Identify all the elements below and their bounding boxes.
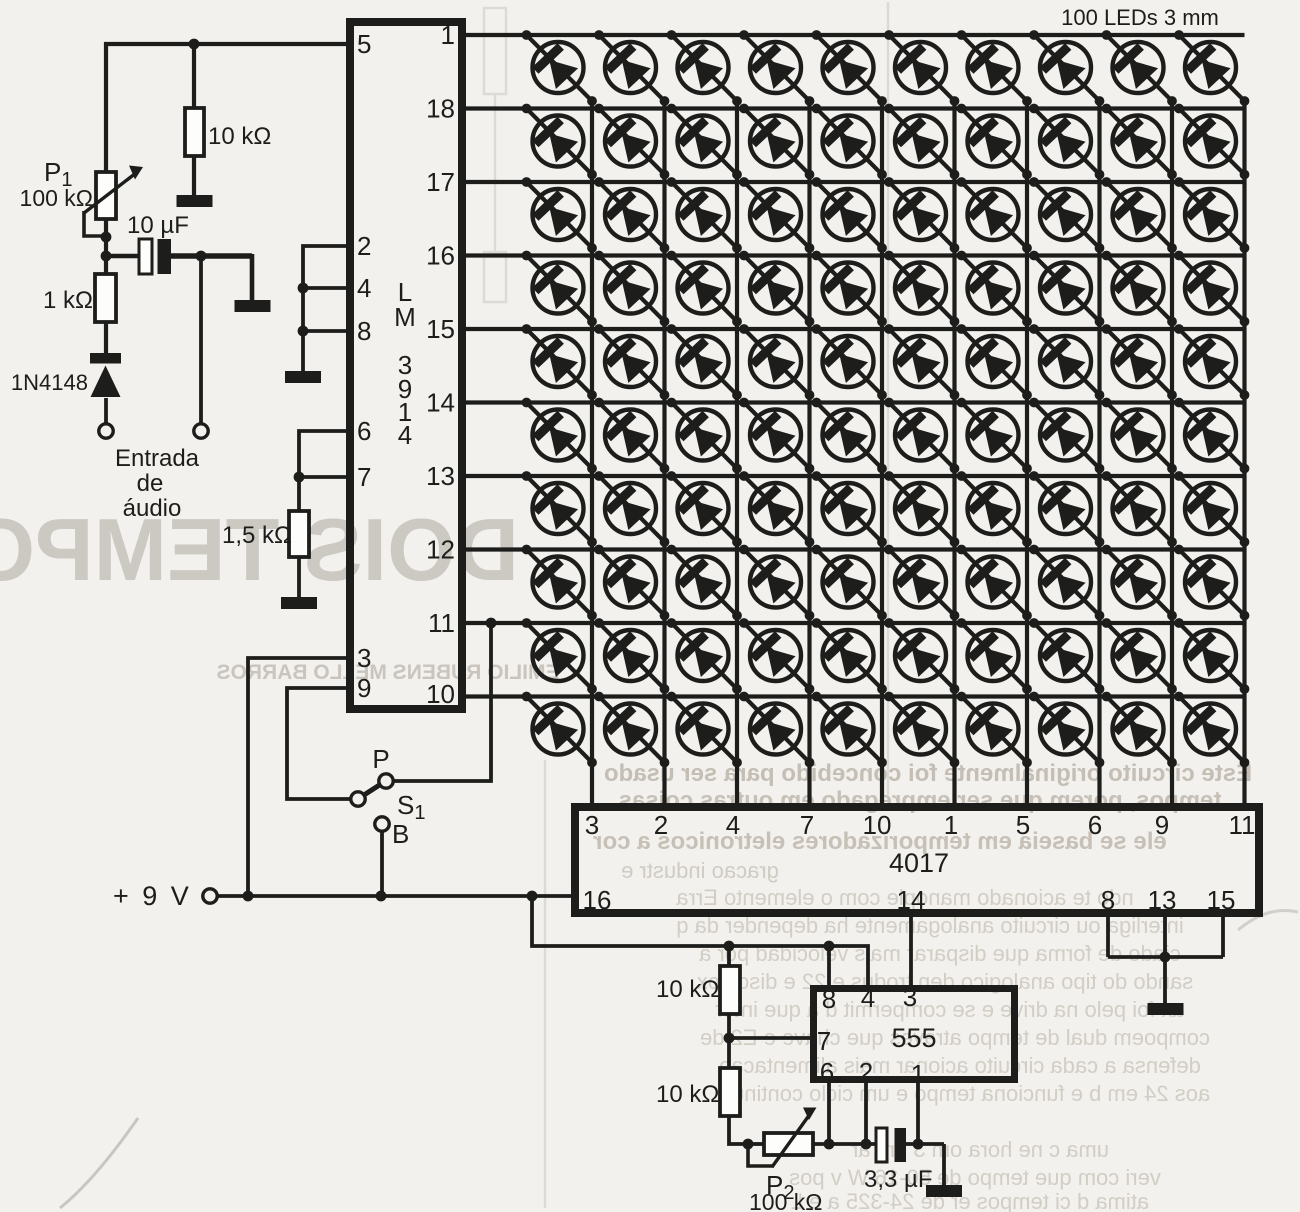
svg-text:1N4148: 1N4148 [11, 370, 88, 395]
LED D98 (row pin 10, column pin 6) [1029, 692, 1104, 768]
LED D74 (row pin 12, column pin 7) [739, 545, 814, 621]
wire: P1 bottom to 1k resistor [104, 219, 108, 274]
LED D88 (row pin 11, column pin 6) [1029, 618, 1104, 694]
svg-text:14: 14 [897, 885, 926, 915]
wire: row line LM3914 pin 18 [462, 106, 1245, 110]
svg-text:8: 8 [357, 316, 371, 346]
svg-text:aos 24 em b e funciona temp: aos 24 em b e funciona tempo e um ciclo … [719, 1081, 1210, 1106]
svg-text:555: 555 [891, 1023, 936, 1053]
LED D38 (row pin 16, column pin 6) [1029, 251, 1104, 327]
svg-text:4: 4 [357, 273, 371, 303]
LED D54 (row pin 14, column pin 7) [739, 398, 814, 474]
LED D55 (row pin 14, column pin 10) [812, 398, 887, 474]
LED D29 (row pin 17, column pin 9) [1102, 177, 1177, 253]
resistor 10 kOhm (R5 timing) [720, 1068, 740, 1116]
potentiometer P1 body [96, 172, 116, 219]
ground below 10k [177, 195, 213, 207]
wire: row line LM3914 pin 17 [462, 180, 1245, 184]
wire: 555 pin 8 riser [827, 946, 831, 985]
LED D26 (row pin 17, column pin 1) [884, 177, 959, 253]
LED D35 (row pin 16, column pin 10) [812, 251, 887, 327]
ground for 555 timing network [926, 1185, 962, 1197]
LED D70 (row pin 13, column pin 11) [1174, 471, 1249, 547]
svg-text:7: 7 [817, 1026, 831, 1056]
LED D92 (row pin 10, column pin 2) [594, 692, 669, 768]
LED D3 (row pin 1, column pin 4) [667, 30, 742, 106]
LED D37 (row pin 16, column pin 5) [957, 251, 1032, 327]
svg-text:2: 2 [654, 810, 668, 840]
LED D91 (row pin 10, column pin 3) [522, 692, 597, 768]
LED D28 (row pin 17, column pin 6) [1029, 177, 1104, 253]
wire: row line LM3914 pin 11 [462, 621, 1245, 625]
LED D12 (row pin 18, column pin 2) [594, 104, 669, 180]
svg-text:100 kΩ: 100 kΩ [20, 185, 93, 211]
op-amp/driver IC U1 LM3914 body [350, 22, 462, 709]
junction: +9V / LM pin 3 branch [243, 891, 254, 902]
LED D97 (row pin 10, column pin 5) [957, 692, 1032, 768]
wire: pin 8 to ground bus [303, 329, 346, 333]
svg-text:7: 7 [800, 810, 814, 840]
svg-text:1 kΩ: 1 kΩ [43, 287, 93, 314]
LED D20 (row pin 18, column pin 11) [1174, 104, 1249, 180]
LED D93 (row pin 10, column pin 4) [667, 692, 742, 768]
LED D57 (row pin 14, column pin 5) [957, 398, 1032, 474]
junction: +9V / switch B branch [376, 891, 387, 902]
LED D33 (row pin 16, column pin 4) [667, 251, 742, 327]
wire: 555 pin 1 riser [916, 1083, 920, 1144]
wire: 555 pin 6 riser [827, 1083, 831, 1144]
LED D71 (row pin 12, column pin 3) [522, 545, 597, 621]
wire: 10k resistor top lead [192, 44, 196, 108]
LED D65 (row pin 13, column pin 10) [812, 471, 887, 547]
svg-text:uma c ne hora om 3 um ar: uma c ne hora om 3 um ar [851, 1137, 1109, 1162]
svg-text:10 kΩ: 10 kΩ [656, 976, 719, 1003]
junction: supply line / 10k timing chain [724, 941, 735, 952]
LED D73 (row pin 12, column pin 4) [667, 545, 742, 621]
LED D15 (row pin 18, column pin 10) [812, 104, 887, 180]
LED D56 (row pin 14, column pin 1) [884, 398, 959, 474]
LED D96 (row pin 10, column pin 1) [884, 692, 959, 768]
LED D99 (row pin 10, column pin 9) [1102, 692, 1177, 768]
capacitor C2 3,3uF positive plate [876, 1128, 887, 1162]
wire: row line LM3914 pin 15 [462, 327, 1245, 331]
wire: column line to 4017 pin 4 [735, 100, 739, 807]
diode 1N4148 anode triangle [91, 366, 121, 398]
LED D81 (row pin 11, column pin 3) [522, 618, 597, 694]
wire: row line LM3914 pin 1 [462, 33, 1245, 37]
counter IC U2 4017 body [575, 807, 1259, 913]
svg-text:4: 4 [398, 420, 412, 450]
capacitor C2 3,3uF negative plate [895, 1128, 907, 1162]
wire: pin 9 to switch S1 common [287, 688, 351, 799]
LED D61 (row pin 13, column pin 3) [522, 471, 597, 547]
LED D23 (row pin 17, column pin 4) [667, 177, 742, 253]
junction: pin8/bus [298, 326, 309, 337]
LED D64 (row pin 13, column pin 7) [739, 471, 814, 547]
junction: coupling cap node [101, 251, 112, 262]
svg-text:áudio: áudio [123, 495, 182, 522]
svg-text:4017: 4017 [889, 848, 949, 878]
LED D22 (row pin 17, column pin 2) [594, 177, 669, 253]
svg-text:defensa a cada circuito aciona: defensa a cada circuito acionar mais ali… [719, 1053, 1201, 1078]
ground below 1.5k [281, 597, 317, 609]
svg-text:Entrada: Entrada [115, 445, 200, 472]
wire: diode to input terminal [104, 398, 108, 424]
LED D40 (row pin 16, column pin 11) [1174, 251, 1249, 327]
terminal: audio input (right) [194, 424, 208, 438]
wire: column line to 4017 pin 7 [807, 100, 811, 807]
svg-text:12: 12 [426, 535, 455, 565]
svg-text:15: 15 [1207, 885, 1236, 915]
LED D76 (row pin 12, column pin 1) [884, 545, 959, 621]
wire: to 10uF capacitor [106, 254, 139, 259]
wire: pins 8-13-15 tie line [1108, 955, 1223, 959]
LED D87 (row pin 11, column pin 5) [957, 618, 1032, 694]
svg-text:3: 3 [357, 643, 371, 673]
svg-text:atima d ci tempos er de 24-3: atima d ci tempos er de 24-325 a e L [791, 1189, 1149, 1212]
wire: down to ground stub [250, 254, 255, 301]
svg-text:16: 16 [583, 885, 612, 915]
wire: C2 to ground branch [906, 1142, 944, 1146]
LED D84 (row pin 11, column pin 7) [739, 618, 814, 694]
LED D9 (row pin 1, column pin 9) [1102, 30, 1177, 106]
wire: 1.5k to ground [297, 557, 301, 598]
junction: pin6/pin7 node [294, 472, 305, 483]
LED D47 (row pin 15, column pin 5) [957, 324, 1032, 400]
svg-text:16: 16 [426, 241, 455, 271]
svg-text:3,3 µF: 3,3 µF [864, 1166, 933, 1193]
LED D16 (row pin 18, column pin 1) [884, 104, 959, 180]
LED D69 (row pin 13, column pin 9) [1102, 471, 1177, 547]
LED D59 (row pin 14, column pin 9) [1102, 398, 1177, 474]
svg-text:5: 5 [357, 29, 371, 59]
wire: node to 1.5k [297, 477, 301, 511]
svg-text:10 kΩ: 10 kΩ [656, 1081, 719, 1108]
LED D50 (row pin 15, column pin 11) [1174, 324, 1249, 400]
svg-text:P: P [372, 744, 389, 774]
svg-text:10 µF: 10 µF [127, 212, 189, 239]
LED D72 (row pin 12, column pin 2) [594, 545, 669, 621]
LED D80 (row pin 12, column pin 11) [1174, 545, 1249, 621]
LED D58 (row pin 14, column pin 6) [1029, 398, 1104, 474]
wire: pin 2 to ground bus [303, 246, 346, 372]
junction: 555 pin 6 [824, 1139, 835, 1150]
svg-text:10: 10 [426, 679, 455, 709]
svg-text:1: 1 [944, 810, 958, 840]
wire: node A top rail from P1 top down to P1 and to LM3914 pin 5 [106, 44, 346, 173]
LED D10 (row pin 1, column pin 11) [1174, 30, 1249, 106]
LED D48 (row pin 15, column pin 6) [1029, 324, 1104, 400]
terminal: +9V supply [203, 889, 217, 903]
wire: row line LM3914 pin 12 [462, 547, 1245, 551]
svg-text:veri com que tempo de 50-16: veri com que tempo de 50-16 W v pos [789, 1165, 1161, 1190]
junction: P1 wiper node [101, 232, 112, 243]
LED D52 (row pin 14, column pin 2) [594, 398, 669, 474]
wire: pin 7 to divider node [299, 475, 346, 479]
junction: signal input node [196, 251, 207, 262]
wire: column line to 4017 pin 6 [1097, 100, 1101, 807]
svg-text:EMILIO RUBENS MELLO BARROS: EMILIO RUBENS MELLO BARROS [216, 661, 559, 684]
wire: contact B down to +9V rail [380, 831, 384, 896]
junction: +9V / 555 supply branch [527, 891, 538, 902]
wire: signal node down to input terminal [199, 256, 203, 424]
LED D82 (row pin 11, column pin 2) [594, 618, 669, 694]
potentiometer P2 wiper arrow [772, 1114, 810, 1167]
junction: pin 11 line / switch P [486, 618, 497, 629]
LED D5 (row pin 1, column pin 10) [812, 30, 887, 106]
svg-text:M: M [394, 302, 416, 332]
junction: supply line / 555 pin 8 [824, 941, 835, 952]
LED D86 (row pin 11, column pin 1) [884, 618, 959, 694]
wire: 1k to diode [104, 322, 108, 355]
svg-text:4: 4 [726, 810, 740, 840]
svg-text:13: 13 [1148, 885, 1177, 915]
svg-text:gracao industr e: gracao industr e [621, 858, 779, 883]
svg-text:4: 4 [861, 983, 875, 1013]
potentiometer P2 body [764, 1133, 813, 1155]
LED D21 (row pin 17, column pin 3) [522, 177, 597, 253]
svg-text:ax foi pelo na drive e se co: ax foi pelo na drive e se compermit d a … [715, 997, 1185, 1022]
wire: +9V rail to 4017 pin 16 [217, 894, 575, 898]
wire: node to 555 pin 7 [729, 1036, 813, 1040]
wire: 4017 pin 14 to 555 pin 3 [909, 917, 913, 989]
wire: R5 down to P2 node [729, 1116, 748, 1144]
LED D2 (row pin 1, column pin 2) [594, 30, 669, 106]
LED D66 (row pin 13, column pin 1) [884, 471, 959, 547]
LED D4 (row pin 1, column pin 7) [739, 30, 814, 106]
junction: pin13 / tie line [1160, 952, 1171, 963]
svg-text:100 LEDs 3 mm: 100 LEDs 3 mm [1061, 5, 1219, 30]
LED D67 (row pin 13, column pin 5) [957, 471, 1032, 547]
LED D24 (row pin 17, column pin 7) [739, 177, 814, 253]
svg-text:17: 17 [426, 167, 455, 197]
wire: row line LM3914 pin 10 [462, 694, 1245, 698]
ground for pins 2,4,8 [285, 371, 321, 383]
capacitor C1 10uF positive plate [139, 239, 152, 274]
LED D49 (row pin 15, column pin 9) [1102, 324, 1177, 400]
svg-text:5: 5 [1016, 810, 1030, 840]
resistor 10 kOhm (R4 timing) [720, 966, 740, 1014]
svg-text:8: 8 [822, 984, 836, 1014]
wire: 4017 pin 13 to ground [1163, 917, 1167, 1004]
ground for signal return [235, 300, 271, 312]
wire: column line to 4017 pin 9 [1170, 100, 1174, 807]
svg-text:B: B [392, 819, 409, 849]
svg-text:2: 2 [859, 1057, 873, 1087]
svg-text:15: 15 [426, 314, 455, 344]
wire: pin 6 down to pin 7 node [299, 431, 346, 477]
svg-text:3: 3 [585, 810, 599, 840]
wire: 4017 pin 8 riser [1106, 917, 1110, 957]
LED D63 (row pin 13, column pin 4) [667, 471, 742, 547]
LED D83 (row pin 11, column pin 4) [667, 618, 742, 694]
wire: node to R5 [727, 1038, 731, 1068]
LED D14 (row pin 18, column pin 7) [739, 104, 814, 180]
LED D100 (row pin 10, column pin 11) [1174, 692, 1249, 768]
LED D8 (row pin 1, column pin 6) [1029, 30, 1104, 106]
wire: column line to 4017 pin 2 [662, 100, 666, 807]
LED D34 (row pin 16, column pin 7) [739, 251, 814, 327]
svg-text:6: 6 [820, 1057, 834, 1087]
LED D51 (row pin 14, column pin 3) [522, 398, 597, 474]
svg-text:1: 1 [441, 20, 455, 50]
LED D19 (row pin 18, column pin 9) [1102, 104, 1177, 180]
wire: P1 wiper hook to bottom terminal [84, 211, 104, 236]
LED D41 (row pin 15, column pin 3) [522, 324, 597, 400]
svg-text:9: 9 [357, 673, 371, 703]
LED D46 (row pin 15, column pin 1) [884, 324, 959, 400]
switch S1 contact B [375, 817, 389, 831]
LED D13 (row pin 18, column pin 4) [667, 104, 742, 180]
svg-text:+ 9 V: + 9 V [113, 881, 192, 911]
wire: node to P2 body [748, 1142, 764, 1146]
junction: pin 7 node [724, 1033, 735, 1044]
wire: column line to 4017 pin 11 [1242, 100, 1246, 807]
wire: 10uF to signal node [171, 253, 252, 259]
wire: row line LM3914 pin 16 [462, 253, 1245, 257]
LED D25 (row pin 17, column pin 10) [812, 177, 887, 253]
wire: +9V branch down to 555 supply line [532, 896, 868, 985]
wire: down to ground [942, 1144, 946, 1186]
svg-text:14: 14 [426, 388, 455, 418]
svg-text:11: 11 [1229, 810, 1256, 840]
LED D32 (row pin 16, column pin 2) [594, 251, 669, 327]
LED D18 (row pin 18, column pin 6) [1029, 104, 1104, 180]
svg-text:8: 8 [1101, 885, 1115, 915]
LED D36 (row pin 16, column pin 1) [884, 251, 959, 327]
LED D44 (row pin 15, column pin 7) [739, 324, 814, 400]
LED D7 (row pin 1, column pin 5) [957, 30, 1032, 106]
svg-text:de: de [137, 470, 164, 497]
wire: column line to 4017 pin 5 [1025, 100, 1029, 807]
switch S1 common contact [351, 792, 365, 806]
LED D95 (row pin 10, column pin 10) [812, 692, 887, 768]
resistor 10 kOhm (reference divider) [185, 108, 204, 156]
LED D42 (row pin 15, column pin 2) [594, 324, 669, 400]
LED D53 (row pin 14, column pin 4) [667, 398, 742, 474]
wire: 555 pin 2 riser [864, 1083, 868, 1144]
svg-text:6: 6 [357, 416, 371, 446]
LED D89 (row pin 11, column pin 9) [1102, 618, 1177, 694]
switch S1 contact P [379, 774, 393, 788]
LED D11 (row pin 18, column pin 3) [522, 104, 597, 180]
LED D79 (row pin 12, column pin 9) [1102, 545, 1177, 621]
LED D90 (row pin 11, column pin 11) [1174, 618, 1249, 694]
svg-text:6: 6 [1088, 810, 1102, 840]
junction: P2 left node [743, 1139, 754, 1150]
LED D1 (row pin 1, column pin 3) [522, 30, 597, 106]
svg-text:Este circuito originalmente fo: Este circuito originalmente foi concebid… [604, 760, 1252, 787]
LED D77 (row pin 12, column pin 5) [957, 545, 1032, 621]
LED D60 (row pin 14, column pin 11) [1174, 398, 1249, 474]
terminal: audio input (left) [99, 424, 113, 438]
wire: 10k resistor bottom lead [192, 156, 196, 196]
wire: pin 3 to +9V rail [248, 658, 346, 896]
svg-text:11: 11 [428, 608, 455, 638]
potentiometer P1 wiper arrow [84, 173, 136, 213]
svg-text:3: 3 [903, 982, 917, 1012]
svg-text:2: 2 [357, 231, 371, 261]
wire: row line LM3914 pin 13 [462, 474, 1245, 478]
wire: contact P up to LM3914 pin 11 line [393, 623, 491, 781]
wire: P2 wiper hook [748, 1144, 774, 1166]
wire: P2 to pins 6/2 [813, 1142, 876, 1146]
LED D75 (row pin 12, column pin 10) [812, 545, 887, 621]
LED D27 (row pin 17, column pin 5) [957, 177, 1032, 253]
LED D45 (row pin 15, column pin 10) [812, 324, 887, 400]
wire: column line to 4017 pin 3 [590, 100, 594, 807]
resistor 1 kOhm [95, 274, 116, 322]
wire: pin 4 to ground bus [303, 286, 346, 290]
wire: column line to 4017 pin 10 [880, 100, 884, 807]
resistor 1,5 kOhm [289, 511, 309, 557]
switch S1 lever [364, 784, 381, 795]
timer IC U3 555 body [814, 989, 1015, 1080]
LED D78 (row pin 12, column pin 6) [1029, 545, 1104, 621]
LED D30 (row pin 17, column pin 11) [1174, 177, 1249, 253]
svg-text:100 kΩ: 100 kΩ [749, 1189, 822, 1212]
junction: 555 pin 2 [861, 1139, 872, 1150]
LED D94 (row pin 10, column pin 7) [739, 692, 814, 768]
LED D39 (row pin 16, column pin 9) [1102, 251, 1177, 327]
LED D85 (row pin 11, column pin 10) [812, 618, 887, 694]
junction: 555 pin 1 [913, 1139, 924, 1150]
junction: top rail / 10k resistor [189, 39, 200, 50]
LED D43 (row pin 15, column pin 4) [667, 324, 742, 400]
svg-text:9: 9 [1155, 810, 1169, 840]
wire: 4017 pin 15 riser [1221, 917, 1225, 957]
ground below 4017 pin 13 [1148, 1003, 1184, 1015]
LED D31 (row pin 16, column pin 3) [522, 251, 597, 327]
svg-text:10 kΩ: 10 kΩ [208, 123, 271, 150]
LED D17 (row pin 18, column pin 5) [957, 104, 1032, 180]
LED D6 (row pin 1, column pin 1) [884, 30, 959, 106]
svg-text:7: 7 [357, 462, 371, 492]
svg-text:18: 18 [426, 94, 455, 124]
LED D68 (row pin 13, column pin 6) [1029, 471, 1104, 547]
wire: 10k chain from supply line [727, 946, 731, 966]
svg-text:10: 10 [863, 810, 892, 840]
diode 1N4148 cathode bar [90, 353, 121, 364]
svg-text:13: 13 [426, 461, 455, 491]
wire: column line to 4017 pin 1 [952, 100, 956, 807]
junction: pin4/bus [298, 283, 309, 294]
capacitor C1 10uF negative plate [158, 239, 172, 274]
LED D62 (row pin 13, column pin 2) [594, 471, 669, 547]
svg-text:1,5 kΩ: 1,5 kΩ [222, 522, 292, 549]
wire: R4 to pin 7 node [727, 1014, 731, 1038]
wire: row line LM3914 pin 14 [462, 400, 1245, 404]
